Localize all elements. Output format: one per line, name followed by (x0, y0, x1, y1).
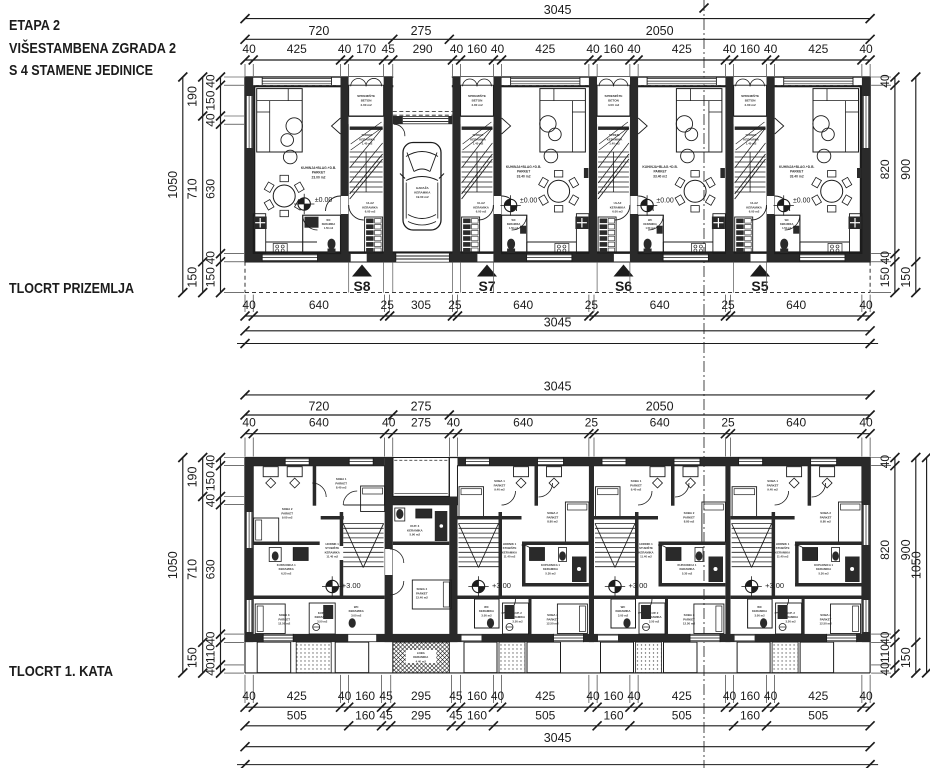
svg-text:640: 640 (650, 416, 670, 430)
svg-text:5.30 m2: 5.30 m2 (818, 571, 829, 575)
staircase (S8) (343, 524, 383, 568)
svg-text:25: 25 (448, 298, 462, 312)
compass symbol (778, 199, 790, 211)
bathroom kupaonica1 (530, 548, 587, 583)
unit S7 first floor (458, 458, 589, 673)
svg-text:33.40 m2: 33.40 m2 (653, 174, 667, 178)
staircase first floor (459, 524, 499, 568)
svg-text:425: 425 (672, 689, 692, 703)
dimension row fine (first floor, below) (241, 675, 875, 712)
wardrobe block (735, 217, 753, 253)
svg-text:290: 290 (413, 42, 433, 56)
plant (544, 149, 558, 163)
entry hall label (ulaz) (610, 201, 626, 214)
top plan outer walls (245, 77, 870, 262)
windows first floor bottom (554, 635, 584, 642)
kitchen counter (663, 214, 725, 254)
stove (555, 244, 569, 254)
balcony 2 (664, 642, 698, 673)
svg-text:820: 820 (878, 540, 892, 560)
svg-text:KERAMIKA: KERAMIKA (414, 190, 431, 194)
dimension row fine (top plan, below) (241, 295, 875, 321)
living room window bottom (527, 254, 572, 261)
svg-text:160: 160 (467, 42, 487, 56)
dimension row 720/275/2050 (first floor) (241, 400, 875, 420)
entry door arc (349, 205, 364, 220)
svg-text:425: 425 (808, 42, 828, 56)
plant (817, 149, 831, 163)
left chain 190/710/150 (first floor) (186, 453, 208, 678)
storage room (spremiste) (349, 77, 384, 130)
svg-text:3045: 3045 (544, 731, 572, 745)
windows first floor top (602, 458, 626, 465)
svg-text:+3.00: +3.00 (492, 581, 511, 590)
unit S5 first floor (731, 458, 862, 673)
windows first floor bottom (690, 635, 720, 642)
svg-text:2050: 2050 (646, 400, 674, 414)
svg-text:WC: WC (326, 219, 330, 222)
stove (273, 244, 287, 254)
right chain 1050 (first floor) (910, 453, 930, 677)
svg-text:25: 25 (585, 298, 599, 312)
svg-text:1050: 1050 (166, 551, 180, 579)
svg-text:110: 110 (204, 644, 218, 663)
dimension row fine (top plan, above) (241, 42, 875, 76)
svg-text:425: 425 (535, 689, 555, 703)
svg-text:40: 40 (204, 631, 218, 645)
bathroom (775, 215, 800, 253)
svg-text:9.00 m2: 9.00 m2 (282, 516, 293, 520)
door gap to soba4 (385, 549, 392, 575)
svg-text:40: 40 (878, 251, 892, 265)
svg-text:40: 40 (859, 298, 873, 312)
plant (283, 150, 297, 164)
entry hall label (ulaz) (473, 201, 489, 214)
entry door arc (752, 205, 767, 220)
svg-text:40: 40 (878, 455, 892, 469)
svg-text:SPREMIŠTE: SPREMIŠTE (468, 93, 486, 98)
hall door arcs S8 (390, 549, 404, 595)
left chain 1050 (top plan) (166, 73, 188, 298)
dining table (548, 180, 570, 202)
svg-text:11.40 m2: 11.40 m2 (504, 555, 516, 559)
svg-text:KERAMIKA: KERAMIKA (780, 223, 794, 226)
soba4 over garage (412, 580, 451, 609)
balcony 2 (527, 642, 561, 673)
kup2 (S8) (309, 603, 335, 634)
svg-text:WC: WC (785, 219, 789, 222)
svg-text:13.40 m2: 13.40 m2 (416, 596, 429, 600)
svg-text:PARKET: PARKET (312, 171, 325, 175)
kup3 over garage (393, 508, 450, 545)
svg-text:40: 40 (242, 42, 256, 56)
svg-text:160: 160 (603, 42, 623, 56)
svg-text:110: 110 (878, 644, 892, 663)
stove (828, 244, 842, 254)
svg-text:±0.00: ±0.00 (793, 198, 811, 205)
svg-text:160: 160 (467, 708, 487, 722)
svg-text:160: 160 (740, 42, 760, 56)
svg-text:40: 40 (878, 631, 892, 645)
coffee table circles (540, 116, 562, 141)
svg-text:GARAŽA: GARAŽA (416, 185, 430, 190)
living room window bottom (800, 254, 845, 261)
svg-text:640: 640 (309, 416, 329, 430)
interior walls (594, 466, 725, 634)
textured terrace cell (772, 642, 798, 673)
spremiste keramika label (351, 122, 382, 150)
svg-text:40: 40 (878, 74, 892, 88)
svg-text:40: 40 (338, 689, 352, 703)
svg-text:275: 275 (411, 416, 431, 430)
bedroom soba1 (596, 467, 666, 518)
svg-text:820: 820 (878, 159, 892, 179)
svg-text:33.40 m2: 33.40 m2 (790, 174, 804, 178)
dimension row 3045 (top plan, above) (241, 3, 875, 23)
svg-text:PARKET: PARKET (790, 170, 803, 174)
svg-text:1.40 m2: 1.40 m2 (746, 142, 757, 146)
bedroom soba1 (S8) (335, 477, 384, 512)
entry marker triangle (614, 265, 634, 277)
bathroom (502, 215, 527, 253)
plant (681, 149, 695, 163)
storage room (spremiste) (461, 77, 494, 130)
svg-text:640: 640 (786, 416, 806, 430)
left chain fine (top plan) (204, 73, 245, 298)
svg-text:45: 45 (382, 42, 396, 56)
svg-text:KUHINJA+BLAG.+D.B.: KUHINJA+BLAG.+D.B. (779, 165, 814, 169)
svg-text:1.40 m2: 1.40 m2 (609, 142, 620, 146)
svg-text:160: 160 (355, 689, 375, 703)
svg-text:425: 425 (287, 689, 307, 703)
svg-text:11.40 m2: 11.40 m2 (326, 555, 338, 559)
svg-text:150: 150 (899, 267, 913, 288)
svg-text:VIŠESTAMBENA ZGRADA 2: VIŠESTAMBENA ZGRADA 2 (9, 39, 176, 57)
svg-text:11.40 m2: 11.40 m2 (777, 555, 789, 559)
svg-text:40: 40 (586, 689, 600, 703)
svg-text:BETON: BETON (745, 99, 757, 103)
right chain 40/820/40/110/40 (first floor) (871, 453, 899, 678)
svg-text:PARKET: PARKET (653, 170, 666, 174)
sofa (813, 89, 859, 152)
svg-text:8.80 m2: 8.80 m2 (547, 520, 558, 524)
svg-text:160: 160 (467, 689, 487, 703)
svg-text:720: 720 (308, 400, 329, 414)
entry door at porch (477, 254, 493, 262)
svg-text:150: 150 (186, 647, 200, 668)
svg-text:45: 45 (449, 708, 463, 722)
svg-text:425: 425 (287, 42, 307, 56)
svg-text:40: 40 (242, 298, 256, 312)
svg-text:3.50 m2: 3.50 m2 (785, 619, 796, 623)
bedroom soba2 (820, 467, 862, 542)
textured terrace cell (636, 642, 662, 673)
kitchen counter (800, 214, 862, 254)
svg-text:5.30 m2: 5.30 m2 (682, 571, 693, 575)
svg-text:25: 25 (585, 416, 599, 430)
door wing symbols upper walls (332, 118, 784, 134)
svg-text:505: 505 (287, 708, 307, 722)
coffee table circles (281, 118, 302, 147)
svg-text:KUHINJA+BLAG.+D.B.: KUHINJA+BLAG.+D.B. (642, 165, 677, 169)
radiator (720, 168, 725, 178)
svg-text:190: 190 (186, 86, 200, 107)
bedroom soba2 (S8) (254, 467, 303, 542)
balcony door (735, 635, 755, 642)
top plan party walls (245, 77, 870, 262)
svg-text:40: 40 (859, 689, 873, 703)
svg-text:SPREMIŠTE: SPREMIŠTE (741, 93, 759, 98)
bedroom soba3 (546, 604, 587, 634)
bedroom soba1 (459, 467, 529, 518)
wardrobe block (462, 217, 480, 253)
svg-text:630: 630 (204, 179, 218, 199)
wc (S8) (349, 605, 364, 628)
svg-text:3.50 m2: 3.50 m2 (512, 619, 523, 623)
radiator (857, 168, 862, 178)
svg-text:3045: 3045 (544, 379, 572, 393)
stair labels (775, 542, 790, 559)
bedroom soba2 (547, 467, 589, 542)
unit S7 ground floor (461, 77, 589, 294)
garage front wall and entry (393, 116, 453, 136)
spremiste keramika label (736, 122, 765, 150)
svg-text:40: 40 (242, 689, 256, 703)
windows first floor top (739, 458, 763, 465)
svg-text:150: 150 (899, 647, 913, 668)
svg-text:8.80 m2: 8.80 m2 (684, 520, 695, 524)
wardrobe block (365, 217, 383, 253)
compass (S8) (326, 580, 338, 592)
svg-text:720: 720 (308, 24, 329, 38)
dining table (684, 180, 706, 202)
compass symbol (641, 199, 653, 211)
svg-text:+3.00: +3.00 (629, 581, 648, 590)
svg-text:40: 40 (764, 42, 778, 56)
svg-text:33.40 m2: 33.40 m2 (517, 174, 531, 178)
coffee table circles (813, 116, 835, 141)
interior walls (S8) (253, 466, 384, 599)
svg-text:6.00 m2: 6.00 m2 (749, 210, 760, 214)
staircase (350, 128, 383, 199)
bedroom soba1 (732, 467, 802, 518)
right chain 40/820/40/150 (top plan) (871, 73, 899, 298)
svg-text:275: 275 (411, 400, 432, 414)
svg-text:150: 150 (186, 267, 200, 288)
living room window top (784, 78, 853, 85)
bathroom kup2 (639, 603, 665, 634)
svg-text:KERAMIKA: KERAMIKA (322, 223, 336, 226)
svg-text:19.00 m2: 19.00 m2 (416, 195, 429, 199)
svg-text:40: 40 (627, 689, 641, 703)
bathroom kup2 (776, 603, 802, 634)
svg-text:40: 40 (204, 74, 218, 88)
unit S6 ground floor (597, 77, 725, 294)
svg-text:150: 150 (204, 90, 218, 110)
right chain 900/150 (first floor) (899, 453, 921, 678)
svg-text:3045: 3045 (544, 315, 572, 329)
svg-text:BETON: BETON (472, 99, 484, 103)
svg-text:3.50 m2: 3.50 m2 (649, 619, 660, 623)
boundary line below top plan (237, 339, 878, 348)
svg-text:6.25 m2: 6.25 m2 (281, 571, 292, 575)
svg-text:4.00 m2: 4.00 m2 (744, 103, 756, 107)
svg-text:6.00 m2: 6.00 m2 (365, 210, 376, 214)
svg-text:40: 40 (338, 42, 352, 56)
svg-text:KUHINJA+BLAG.+D.B.: KUHINJA+BLAG.+D.B. (301, 166, 336, 170)
interior walls (731, 466, 862, 634)
svg-text:640: 640 (309, 298, 329, 312)
title block (9, 17, 176, 79)
svg-text:SPREMIŠTE: SPREMIŠTE (357, 93, 375, 98)
svg-text:3.00 m2: 3.00 m2 (754, 613, 765, 617)
svg-text:40: 40 (204, 494, 218, 508)
svg-text:25: 25 (721, 298, 735, 312)
entry door arc (615, 205, 630, 220)
driveway recess above garage (393, 76, 453, 116)
living-entry door leafs (326, 196, 790, 211)
svg-text:+3.00: +3.00 (342, 581, 361, 590)
svg-text:2050: 2050 (646, 24, 674, 38)
svg-text:275: 275 (411, 24, 432, 38)
svg-text:710: 710 (186, 559, 200, 580)
balcony 1 (601, 642, 634, 673)
svg-text:9.40 m2: 9.40 m2 (631, 488, 642, 492)
kitchen sink (712, 217, 725, 230)
svg-text:8.80 m2: 8.80 m2 (820, 520, 831, 524)
svg-text:40: 40 (204, 662, 218, 676)
svg-text:±0.00: ±0.00 (656, 198, 674, 205)
svg-text:25: 25 (721, 416, 735, 430)
porch strip dashed outline (245, 262, 870, 293)
compass symbol (504, 199, 516, 211)
svg-text:SPREMIŠTE: SPREMIŠTE (605, 93, 623, 98)
svg-text:425: 425 (672, 42, 692, 56)
svg-text:640: 640 (513, 416, 533, 430)
svg-text:PARKET: PARKET (517, 170, 530, 174)
entry hall label (ulaz) (746, 201, 762, 214)
svg-text:150: 150 (878, 267, 892, 287)
balcony 1 (737, 642, 770, 673)
svg-text:160: 160 (603, 708, 623, 722)
living room window bottom (663, 254, 708, 261)
svg-text:3.00 m2: 3.00 m2 (351, 613, 362, 617)
svg-text:ETAPA 2: ETAPA 2 (9, 17, 60, 34)
symmetry centerline (700, 0, 709, 768)
svg-text:1.50 m2: 1.50 m2 (324, 227, 334, 230)
wc room (479, 605, 494, 628)
svg-text:45: 45 (379, 708, 393, 722)
staircase first floor (732, 524, 772, 568)
svg-text:BETON: BETON (608, 99, 620, 103)
stair labels (638, 542, 653, 559)
door arcs (502, 483, 553, 613)
terrace over garage (393, 458, 450, 497)
door arcs (638, 483, 689, 613)
svg-text:9.40 m2: 9.40 m2 (494, 488, 505, 492)
svg-text:9.40 m2: 9.40 m2 (767, 488, 778, 492)
svg-text:295: 295 (411, 708, 431, 722)
windows first floor top (466, 458, 490, 465)
svg-text:1.40 m2: 1.40 m2 (473, 142, 484, 146)
living room window top (647, 78, 716, 85)
svg-text:S 4 STAMENE JEDINICE: S 4 STAMENE JEDINICE (9, 62, 153, 79)
garage (0, 0, 1, 1)
svg-text:40: 40 (723, 42, 737, 56)
dimension row 720/275/2050 (top plan) (241, 24, 875, 44)
bathroom (303, 215, 341, 253)
svg-text:4.00 m2: 4.00 m2 (608, 103, 620, 107)
svg-text:40: 40 (204, 455, 218, 469)
svg-text:23.00 m2: 23.00 m2 (312, 175, 326, 179)
svg-text:40: 40 (242, 416, 256, 430)
svg-text:KUHINJA+BLAG.+D.B.: KUHINJA+BLAG.+D.B. (506, 165, 541, 169)
svg-text:TLOCRT 1. KATA: TLOCRT 1. KATA (9, 663, 113, 680)
svg-text:40: 40 (586, 42, 600, 56)
bathroom kup2 (503, 603, 529, 634)
svg-text:40: 40 (204, 113, 218, 127)
wardrobe block (598, 217, 616, 253)
wc room (615, 605, 630, 628)
svg-text:40: 40 (447, 416, 461, 430)
sofa (540, 89, 586, 152)
dimension row 3045 (top plan, below) (241, 315, 875, 335)
sofa (257, 89, 303, 152)
svg-text:3.00 m2: 3.00 m2 (618, 613, 629, 617)
door arcs (775, 483, 826, 613)
coffee table circles (676, 116, 698, 141)
first floor right wall windows (863, 505, 869, 632)
svg-text:505: 505 (808, 708, 828, 722)
svg-text:40: 40 (491, 689, 505, 703)
svg-text:160: 160 (355, 708, 375, 722)
entry door at porch (751, 254, 767, 262)
svg-text:640: 640 (650, 298, 670, 312)
living room window bottom (262, 254, 317, 261)
first floor balcony strip outline (245, 642, 870, 673)
svg-text:40: 40 (450, 42, 464, 56)
svg-text:1050: 1050 (166, 171, 180, 199)
top plan right wall window (863, 96, 869, 148)
bedroom soba3 (683, 604, 724, 634)
svg-text:40: 40 (764, 689, 778, 703)
windows S8 first floor (285, 458, 309, 465)
svg-text:40: 40 (859, 42, 873, 56)
balcony S8 b (335, 642, 369, 673)
dining table (821, 180, 843, 202)
stair labels (502, 542, 517, 559)
storage room (spremiste) (597, 77, 630, 130)
svg-text:630: 630 (204, 559, 218, 579)
first floor outer walls (245, 458, 870, 643)
svg-text:505: 505 (535, 708, 555, 722)
svg-text:11.40 m2: 11.40 m2 (640, 555, 652, 559)
bathroom (638, 215, 663, 253)
left chain 190/710/150 (top plan) (186, 73, 208, 298)
svg-text:305: 305 (411, 298, 431, 312)
staircase first floor (595, 524, 635, 568)
svg-text:WC: WC (648, 219, 652, 222)
top plan left wall window (246, 96, 252, 148)
svg-text:S8: S8 (353, 278, 370, 294)
kitchen sink (254, 217, 267, 230)
compass symbol (472, 580, 484, 592)
storage room (spremiste) (734, 77, 767, 130)
radiator (584, 168, 589, 178)
boundary line below first floor (237, 760, 878, 768)
svg-text:25: 25 (381, 298, 395, 312)
svg-text:4.00 m2: 4.00 m2 (471, 103, 483, 107)
